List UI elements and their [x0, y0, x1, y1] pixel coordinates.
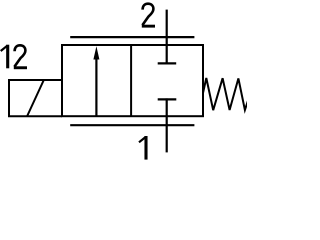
label 1 (port)	[139, 136, 146, 160]
flow arrow (left chamber)	[93, 46, 99, 116]
label 2 (port)	[142, 4, 155, 28]
bottom connection rail	[70, 124, 194, 126]
solenoid diagonal stroke	[27, 80, 44, 116]
port 2 stem wire	[166, 10, 168, 65]
valve body middle divider	[130, 45, 132, 116]
port 1 blocked seat crossbar	[158, 98, 177, 100]
solenoid actuator box	[9, 80, 62, 116]
label 12 : digit 1	[1, 45, 8, 69]
port 2 blocked seat crossbar	[158, 62, 177, 64]
valve body outer rectangle	[62, 45, 203, 116]
top connection rail	[70, 36, 194, 38]
return spring	[203, 78, 248, 110]
port 1 stem wire	[166, 98, 168, 152]
label 12 : digit 2	[14, 45, 27, 69]
